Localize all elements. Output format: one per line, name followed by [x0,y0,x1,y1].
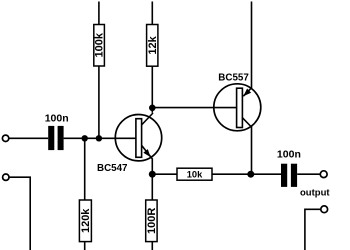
transistor Q2 emitter lead [243,88,251,96]
wire top edge to BC557 emitter [251,2,253,89]
svg-text:output: output [300,188,330,199]
svg-text:BC547: BC547 [97,163,128,174]
input terminal upper [2,135,8,141]
wire top rail to R 100k [98,2,100,25]
resistor 100k [94,25,105,67]
svg-text:100n: 100n [45,112,69,124]
transistor Q2 base bar [237,88,243,127]
svg-text:100k: 100k [94,32,106,57]
resistor 12k [147,25,158,67]
svg-text:12k: 12k [147,35,159,54]
svg-text:BC557: BC557 [218,73,249,84]
transistor Q1 emitter lead [142,145,153,159]
wire R 100k to node B [98,66,100,138]
svg-text:120k: 120k [80,208,92,233]
wire BC557 collector to node D [251,126,253,174]
wire lower-left terminal to ground drop [10,177,31,250]
transistor Q1 emitter arrow [143,149,150,157]
wire R 100R to bottom edge [151,242,153,250]
transistor Q1 base bar [136,119,142,158]
input terminal lower [3,174,9,180]
wire R 120k to bottom edge [84,242,86,250]
resistor 100R [146,200,157,242]
transistor Q1 collector lead [142,113,154,125]
transistor Q2 collector lead [242,117,251,127]
svg-text:100R: 100R [146,208,158,234]
resistor 120k [79,200,91,242]
wire lower-right terminal to ground drop [305,209,321,250]
svg-text:100n: 100n [277,149,301,161]
wire top rail to R 12k [151,2,153,25]
junction node D [247,171,254,178]
svg-text:10k: 10k [187,170,203,180]
wire R 10k to node D to C2 [212,173,281,175]
wire input terminal to C1 [9,137,48,139]
transistor Q2 emitter arrow [243,89,251,97]
wire node A down to R 120k [84,138,86,200]
wire C1 to BC547 base [64,137,137,139]
output terminal upper [320,171,327,178]
junction node C [149,105,156,112]
wire C2 to output terminal [297,173,320,175]
wire BC547 emitter to node E to R 100R [151,159,153,201]
wire node E to R 10k [152,173,177,175]
transistor Q1 BC547 body [115,115,161,161]
junction node A [82,135,88,141]
capacitor C1 plates [48,126,63,150]
resistor 10k [177,168,212,180]
capacitor C2 plates [281,164,297,187]
output terminal lower [321,206,328,213]
wire node C to BC557 base [152,107,236,109]
wire R 12k to node C [151,66,153,113]
junction node E [149,171,156,178]
transistor Q2 BC557 body [214,84,261,131]
junction node B [96,135,102,141]
